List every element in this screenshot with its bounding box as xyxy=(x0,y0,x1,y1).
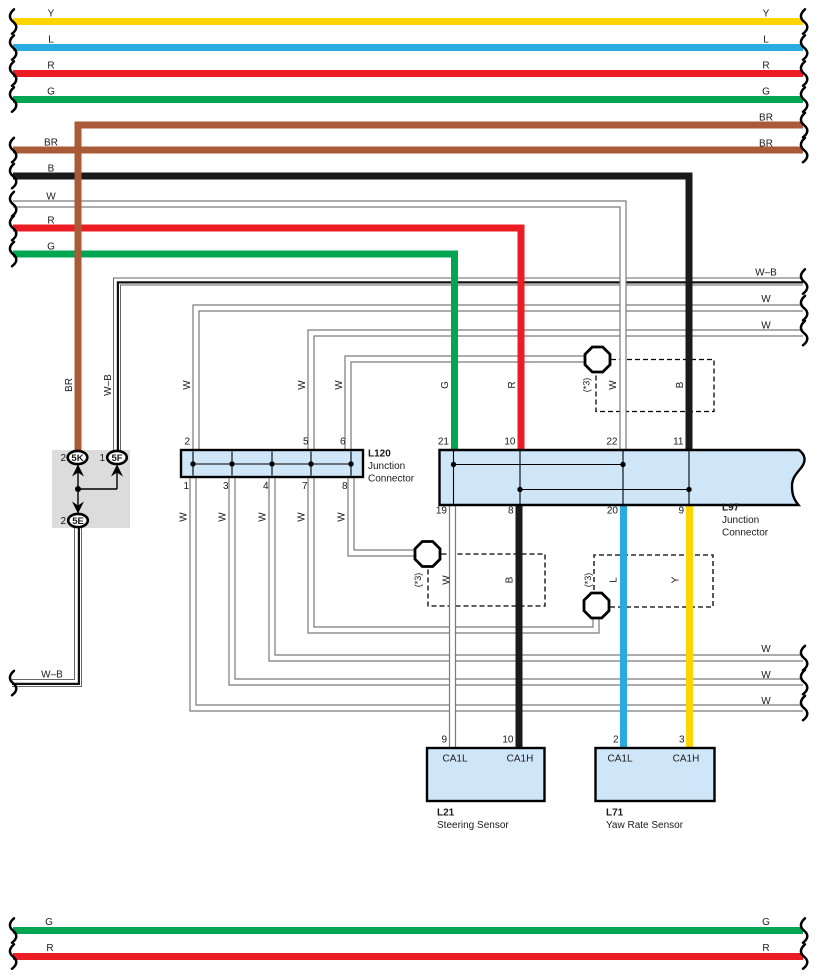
svg-text:19: 19 xyxy=(436,506,448,517)
svg-text:W: W xyxy=(442,575,453,585)
svg-text:G: G xyxy=(762,917,770,928)
svg-text:CA1L: CA1L xyxy=(607,754,632,765)
svg-text:Y: Y xyxy=(763,9,770,20)
svg-text:G: G xyxy=(762,87,770,98)
svg-text:10: 10 xyxy=(502,735,514,746)
svg-text:3: 3 xyxy=(679,735,685,746)
svg-text:BR: BR xyxy=(759,139,773,150)
svg-text:L: L xyxy=(48,35,54,46)
svg-text:2: 2 xyxy=(613,735,619,746)
svg-text:2: 2 xyxy=(60,453,66,464)
svg-text:R: R xyxy=(762,943,769,954)
svg-text:W: W xyxy=(761,644,771,655)
svg-text:20: 20 xyxy=(607,506,619,517)
svg-text:W: W xyxy=(761,696,771,707)
svg-text:W: W xyxy=(179,512,190,522)
svg-text:Yaw Rate Sensor: Yaw Rate Sensor xyxy=(606,820,684,831)
svg-text:R: R xyxy=(46,943,53,954)
svg-text:8: 8 xyxy=(342,481,348,492)
svg-text:22: 22 xyxy=(606,437,618,448)
svg-text:1: 1 xyxy=(99,453,105,464)
svg-text:CA1L: CA1L xyxy=(442,754,467,765)
svg-text:R: R xyxy=(47,216,54,227)
svg-text:R: R xyxy=(762,61,769,72)
svg-text:CA1H: CA1H xyxy=(673,754,700,765)
svg-text:W–B: W–B xyxy=(103,374,114,396)
svg-text:2: 2 xyxy=(184,437,190,448)
svg-text:G: G xyxy=(45,917,53,928)
svg-text:Junction: Junction xyxy=(722,515,759,526)
svg-text:R: R xyxy=(47,61,54,72)
svg-text:Steering Sensor: Steering Sensor xyxy=(437,820,509,831)
svg-text:8: 8 xyxy=(508,506,514,517)
svg-text:2: 2 xyxy=(60,516,66,527)
svg-text:G: G xyxy=(47,242,55,253)
svg-text:BR: BR xyxy=(64,378,75,392)
svg-text:21: 21 xyxy=(438,437,450,448)
svg-text:B: B xyxy=(675,381,686,388)
svg-text:W: W xyxy=(297,380,308,390)
svg-text:W: W xyxy=(761,294,771,305)
svg-text:B: B xyxy=(48,164,55,175)
svg-text:10: 10 xyxy=(504,437,516,448)
svg-text:W: W xyxy=(258,512,269,522)
svg-text:W: W xyxy=(46,192,56,203)
svg-text:W: W xyxy=(608,380,619,390)
svg-text:9: 9 xyxy=(441,735,447,746)
svg-text:5F: 5F xyxy=(111,453,122,464)
svg-text:3: 3 xyxy=(223,481,229,492)
svg-text:4: 4 xyxy=(263,481,269,492)
svg-text:7: 7 xyxy=(302,481,308,492)
svg-text:W: W xyxy=(337,512,348,522)
svg-text:W: W xyxy=(182,380,193,390)
svg-text:(*3): (*3) xyxy=(413,573,423,588)
svg-text:(*3): (*3) xyxy=(582,378,592,393)
svg-text:Connector: Connector xyxy=(368,474,415,485)
svg-text:W: W xyxy=(761,321,771,332)
svg-text:BR: BR xyxy=(759,113,773,124)
svg-text:L120: L120 xyxy=(368,449,391,460)
svg-text:L71: L71 xyxy=(606,808,624,819)
svg-text:6: 6 xyxy=(340,437,346,448)
svg-text:W: W xyxy=(761,670,771,681)
svg-text:G: G xyxy=(47,87,55,98)
svg-text:B: B xyxy=(505,576,516,583)
svg-text:W–B: W–B xyxy=(755,268,777,279)
svg-text:5K: 5K xyxy=(71,453,83,464)
svg-text:L: L xyxy=(763,35,769,46)
svg-text:L21: L21 xyxy=(437,808,455,819)
svg-text:Junction: Junction xyxy=(368,461,405,472)
svg-text:L: L xyxy=(609,577,620,583)
svg-text:BR: BR xyxy=(44,138,58,149)
svg-text:11: 11 xyxy=(673,437,684,448)
svg-text:G: G xyxy=(440,381,451,389)
svg-text:L97: L97 xyxy=(722,503,740,514)
svg-text:Y: Y xyxy=(671,576,682,583)
svg-text:Connector: Connector xyxy=(722,528,769,539)
svg-text:W: W xyxy=(297,512,308,522)
svg-text:W: W xyxy=(218,512,229,522)
svg-text:W–B: W–B xyxy=(41,670,63,681)
svg-text:Y: Y xyxy=(48,9,55,20)
svg-text:(*3): (*3) xyxy=(583,573,593,588)
svg-text:5: 5 xyxy=(303,437,309,448)
svg-text:W: W xyxy=(334,380,345,390)
svg-text:5E: 5E xyxy=(72,516,84,527)
svg-text:CA1H: CA1H xyxy=(507,754,534,765)
svg-text:1: 1 xyxy=(183,481,189,492)
svg-text:R: R xyxy=(507,381,518,388)
svg-text:9: 9 xyxy=(678,506,684,517)
